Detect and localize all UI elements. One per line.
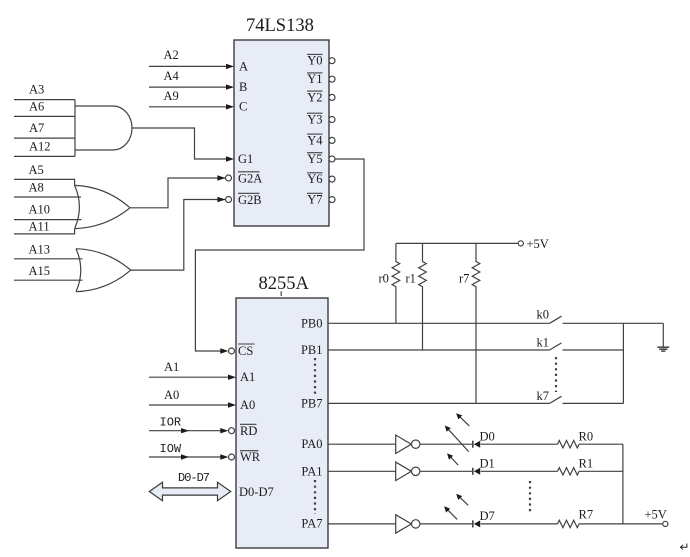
LED D7	[473, 509, 495, 528]
dotted gap k1..k7	[555, 357, 557, 392]
resistor R7	[558, 508, 594, 528]
OR gate U4	[76, 249, 131, 292]
wire A4 to pin B	[149, 69, 234, 90]
U1 pin Y0 bubble	[329, 58, 335, 64]
input stub A11	[14, 220, 75, 234]
paragraph return mark	[680, 540, 690, 554]
svg-text:Y5: Y5	[307, 152, 322, 166]
U1 pin Y4 bubble	[329, 137, 335, 143]
wire inverter to diode D7	[420, 523, 474, 525]
wire PB1 to switch k1	[328, 349, 550, 351]
LED D7 light arrows	[444, 494, 468, 520]
svg-text:A2: A2	[164, 48, 179, 62]
svg-text:A0: A0	[164, 388, 179, 402]
svg-text:↵: ↵	[680, 540, 690, 554]
wire k7 to bus	[563, 402, 624, 404]
svg-text:PA0: PA0	[301, 437, 322, 451]
U1 pin label G2B active-low	[238, 193, 262, 207]
svg-text:A: A	[239, 60, 248, 74]
wire D7 to resistor R7	[481, 523, 558, 525]
wire A9 to pin C	[149, 89, 234, 110]
PPI U5 8255A body	[236, 274, 328, 548]
svg-text:74LS138: 74LS138	[246, 16, 314, 36]
svg-text:B: B	[239, 80, 247, 94]
U5 pin label D0-D7	[239, 485, 274, 499]
wire R0 to +5V bus	[579, 443, 623, 445]
U1 pin Y5 bubble	[329, 156, 335, 162]
svg-text:k0: k0	[537, 308, 550, 322]
svg-text:G2B: G2B	[238, 193, 262, 207]
wire inverter to diode D0	[420, 443, 474, 445]
wire PA7 to inverter	[328, 523, 396, 525]
resistor r0	[379, 243, 400, 323]
input stub A13	[14, 242, 83, 258]
svg-text:Y1: Y1	[307, 72, 322, 86]
U5 pin RD bubble	[229, 428, 235, 434]
wire R1 to +5V bus	[579, 470, 623, 472]
U1 output label Y2	[307, 90, 323, 104]
svg-text:A6: A6	[29, 100, 44, 114]
input stub A3	[14, 83, 75, 100]
svg-text:A1: A1	[164, 360, 179, 374]
wire R7 to +5V terminal	[579, 508, 668, 527]
resistor R0	[558, 430, 594, 448]
U5 pin WR bubble	[229, 454, 235, 460]
svg-text:A4: A4	[164, 69, 180, 83]
U5 pin label PA1	[301, 464, 322, 478]
svg-text:Y6: Y6	[307, 172, 322, 186]
U1 pin label C	[239, 100, 247, 114]
wire OR2 output to G2B	[131, 197, 232, 271]
svg-text:C: C	[239, 100, 247, 114]
switch common bus	[622, 323, 624, 403]
U1 output label Y7	[307, 193, 323, 207]
wire IOR to pin RD	[149, 416, 228, 434]
U1 output label Y1	[307, 72, 323, 86]
svg-text:+5V: +5V	[527, 237, 549, 251]
OR gate U3	[75, 185, 130, 228]
AND gate U2	[75, 100, 132, 157]
svg-text:r1: r1	[406, 272, 416, 286]
resistor r7	[459, 243, 480, 403]
svg-text:RD: RD	[240, 424, 257, 438]
input stub A8	[14, 181, 81, 198]
data bus block arrow D0-D7	[149, 471, 230, 501]
wire AND output to G1	[132, 128, 234, 162]
inverter U6	[396, 435, 420, 454]
wire A0 to pin A0	[149, 388, 236, 408]
ground	[657, 347, 669, 351]
U1 output label Y6	[307, 172, 323, 186]
LED D0	[473, 429, 495, 447]
svg-text:R7: R7	[579, 508, 594, 522]
svg-text:PB0: PB0	[301, 316, 323, 330]
svg-text:PA1: PA1	[301, 464, 322, 478]
svg-text:A3: A3	[29, 83, 44, 97]
svg-text:A13: A13	[29, 242, 51, 256]
U5 pin label CS active-low	[238, 344, 255, 358]
switch k0	[537, 308, 562, 324]
U1 pin Y7 bubble	[329, 197, 335, 203]
svg-text:+5V: +5V	[645, 508, 667, 522]
U1 pin label G1	[238, 152, 253, 166]
wire IOW to pin WR	[149, 442, 228, 460]
wire to ground	[662, 323, 664, 347]
svg-text:D1: D1	[480, 456, 495, 470]
svg-text:R0: R0	[579, 430, 594, 444]
svg-text:A8: A8	[29, 181, 44, 195]
wire inverter to diode D1	[420, 470, 474, 472]
U1 output label Y4	[307, 133, 323, 147]
wire k0 to ground corner	[563, 322, 664, 324]
svg-text:IOR: IOR	[160, 416, 182, 430]
U5 pin label A0	[240, 398, 255, 412]
svg-text:WR: WR	[240, 450, 261, 464]
U1 pin Y1 bubble	[329, 76, 335, 82]
dotted gap D1..D7	[529, 481, 531, 514]
U5 pin label A1	[240, 370, 255, 384]
svg-text:A0: A0	[240, 398, 255, 412]
svg-text:Y2: Y2	[307, 90, 322, 104]
svg-text:Y4: Y4	[307, 133, 323, 147]
wire Y5 to CS of 8255A	[195, 159, 364, 354]
input stub A5	[14, 163, 75, 185]
svg-text:A11: A11	[29, 220, 50, 234]
svg-text:D0-D7: D0-D7	[178, 471, 210, 485]
svg-text:Y3: Y3	[307, 113, 322, 127]
wire OR1 output to G2A	[130, 175, 232, 208]
U5 dotted gap PB1..PB7	[314, 358, 316, 394]
svg-text:PB7: PB7	[301, 396, 323, 410]
U5 pin label PB7	[301, 396, 323, 410]
resistor r1	[406, 243, 427, 350]
input stub A12	[14, 139, 75, 156]
U5 dotted gap PA1..PA7	[314, 480, 316, 514]
input stub A10	[14, 203, 82, 220]
resistor R1	[558, 457, 594, 475]
U1 output label Y0	[307, 54, 323, 68]
svg-text:A1: A1	[240, 370, 255, 384]
U5 pin label WR active-low	[240, 450, 261, 464]
U5 pin label PA0	[301, 437, 322, 451]
svg-text:Y0: Y0	[307, 54, 322, 68]
input stub A6	[14, 100, 75, 117]
wire D1 to resistor R1	[481, 470, 558, 472]
wire A1 to pin A1	[149, 360, 236, 380]
U1 pin Y6 bubble	[329, 176, 335, 182]
svg-text:PA7: PA7	[301, 517, 322, 531]
svg-text:D0-D7: D0-D7	[239, 485, 274, 499]
wire A2 to pin A	[149, 48, 234, 69]
svg-text:IOW: IOW	[160, 442, 182, 456]
svg-text:r7: r7	[459, 272, 469, 286]
svg-text:G1: G1	[238, 152, 253, 166]
decoder U1 74LS138 body	[234, 16, 329, 226]
U1 output label Y3	[307, 113, 323, 127]
svg-text:CS: CS	[238, 344, 253, 358]
svg-text:8255A: 8255A	[259, 274, 310, 294]
svg-text:A5: A5	[29, 163, 44, 177]
svg-text:r0: r0	[379, 272, 389, 286]
input stub A15	[14, 264, 83, 280]
switch k7	[537, 389, 562, 403]
wire k1 to bus	[563, 349, 624, 351]
U5 pin CS bubble	[229, 348, 235, 354]
LED D0 light arrows	[445, 413, 470, 451]
U1 pin Y3 bubble	[329, 117, 335, 123]
svg-text:A7: A7	[29, 121, 44, 135]
U5 pin label RD active-low	[240, 424, 257, 438]
U5 pin label PB1	[301, 343, 323, 357]
U1 pin label B	[239, 80, 247, 94]
svg-text:G2A: G2A	[238, 171, 262, 185]
svg-text:Y7: Y7	[307, 193, 322, 207]
wire PA1 to inverter	[328, 470, 396, 472]
svg-text:A15: A15	[29, 264, 51, 278]
U1 pin label G2A active-low	[238, 171, 262, 185]
switch k1	[537, 336, 562, 351]
LED pull-up bus	[622, 444, 624, 524]
svg-text:k7: k7	[537, 389, 550, 403]
svg-text:D0: D0	[480, 429, 495, 443]
svg-text:A10: A10	[29, 203, 51, 217]
wire D0 to resistor R0	[481, 443, 558, 445]
LED D1 light arrow	[447, 453, 458, 465]
wire PA0 to inverter	[328, 443, 396, 445]
pull-up bus wire to +5V	[396, 237, 549, 251]
wire PB0 to switch k0	[328, 322, 550, 324]
inverter U7	[396, 462, 420, 481]
inverter U8	[396, 515, 420, 534]
svg-text:A12: A12	[29, 139, 51, 153]
svg-text:PB1: PB1	[301, 343, 323, 357]
wire PB7 to switch k7	[328, 402, 550, 404]
U1 output label Y5	[307, 152, 323, 166]
svg-text:R1: R1	[579, 457, 594, 471]
LED D1	[473, 456, 495, 475]
U5 pin label PB0	[301, 316, 323, 330]
U1 pin Y2 bubble	[329, 94, 335, 100]
input stub A7	[14, 121, 75, 138]
U1 pin label A	[239, 60, 248, 74]
svg-text:D7: D7	[480, 509, 495, 523]
U5 pin label PA7	[301, 517, 322, 531]
svg-text:A9: A9	[164, 89, 179, 103]
svg-text:k1: k1	[537, 336, 550, 350]
